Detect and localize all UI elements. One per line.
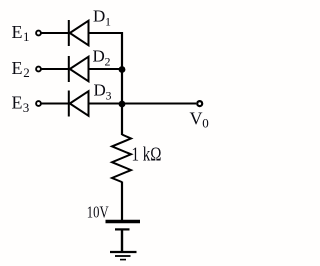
label E2 [12, 58, 30, 80]
svg-text:E: E [12, 58, 23, 78]
svg-text:2: 2 [23, 65, 30, 80]
diode D1 [69, 20, 89, 46]
svg-text:E: E [12, 92, 23, 112]
wire D1 to bus corner [89, 32, 124, 34]
svg-text:1 kΩ: 1 kΩ [132, 145, 162, 166]
svg-text:1: 1 [105, 15, 111, 29]
ground [110, 252, 137, 260]
svg-text:10V: 10V [87, 202, 109, 221]
svg-text:3: 3 [23, 100, 30, 115]
svg-text:0: 0 [202, 116, 209, 131]
wire vertical bus [121, 32, 123, 135]
wire E3 to D3 [42, 103, 69, 105]
wire output to V0 [122, 103, 196, 105]
junction dot row3 [119, 101, 126, 108]
label E1 [12, 22, 30, 44]
node E3 input terminal [36, 101, 41, 106]
junction dot row2 [119, 66, 126, 73]
diode D2 [69, 56, 89, 82]
diode D3 [69, 91, 89, 117]
wire E1 to D1 [42, 32, 69, 34]
label D3 [94, 81, 112, 103]
svg-text:3: 3 [106, 89, 112, 103]
node E2 input terminal [36, 67, 41, 72]
label V0 [190, 109, 209, 131]
node V0 output terminal [197, 101, 202, 106]
svg-text:2: 2 [105, 55, 111, 69]
wire D3 to bus [89, 103, 123, 105]
battery 10V negative plate [115, 228, 130, 230]
wire battery to ground [121, 230, 123, 251]
svg-text:D: D [93, 47, 105, 66]
label D1 [93, 7, 111, 29]
label D2 [93, 47, 111, 69]
svg-text:D: D [94, 81, 106, 100]
resistor R 1 kOhm [112, 135, 131, 183]
svg-text:D: D [93, 7, 105, 26]
svg-text:V: V [190, 109, 203, 129]
battery 10V positive plate [106, 220, 141, 223]
label E3 [12, 92, 30, 115]
wire D2 to bus [89, 68, 123, 70]
wire resistor to battery [121, 182, 123, 221]
svg-text:E: E [12, 22, 23, 42]
wire E2 to D2 [42, 68, 69, 70]
node E1 input terminal [36, 31, 41, 36]
svg-text:1: 1 [23, 29, 30, 44]
